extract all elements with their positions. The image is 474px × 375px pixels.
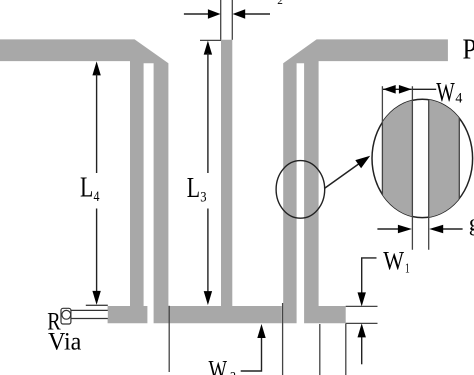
bottom extension line at left (W3 left boundary) [168,306,170,372]
top width dimension: right arrow [244,13,270,15]
svg-text:Via: Via [48,328,81,355]
W4 outward arrows [383,88,412,90]
bottom extension line at right pair right edge [319,324,321,375]
g right extension line (through circle) [428,100,430,250]
W1 leader and top arrow [362,258,377,293]
L4 arrow up [92,61,100,75]
W1 ticks [346,305,378,307]
svg-text:3: 3 [230,370,236,375]
W3 arrow up at bar bottom [257,324,265,338]
leader line from small ellipse to magnified circle [324,163,360,189]
svg-text:1: 1 [405,262,410,277]
magnified strips inside circle [382,99,459,218]
svg-text:3: 3 [200,190,206,206]
svg-text:L: L [80,173,93,204]
svg-text:P: P [463,33,474,65]
W3 leader line [241,337,262,371]
L4 dimension tick above via pad [86,304,108,306]
svg-text:L: L [187,173,200,204]
L3 arrow up [204,41,212,55]
W4 extension line left (through circle) [381,86,383,195]
svg-text:4: 4 [94,189,100,205]
left microstrip structure: top-left feed bar + folded coupled lines + main bottom bar + center strip [0,39,282,323]
W1 bottom arrow [361,337,363,364]
svg-text:W: W [209,356,228,375]
via pad rectangle outline [71,310,108,318]
top width dimension: left arrow [184,13,209,15]
svg-text:g: g [469,210,474,236]
L3 arrow down [207,209,209,293]
W4 leader [412,88,436,90]
W4 / g shared extension line (through circle) [411,86,413,250]
svg-text:W: W [436,77,455,107]
L3 dimension tick at strip top [200,39,221,41]
leader arrowhead [355,156,370,169]
via square with rounded corners [61,308,71,324]
small ellipse marking coupled-line zoom region [276,161,325,219]
right microstrip structure: top-right feed bar + folded coupled lines + bottom stub [283,39,448,323]
via hole circle [62,310,71,319]
bottom extension line at right pair left edge [282,303,284,375]
g dimension arrows [377,228,399,230]
svg-text:2: 2 [277,0,283,7]
top width dimension: extension lines [220,0,222,40]
svg-text:4: 4 [455,91,462,107]
svg-text:W: W [383,247,404,276]
magnified circle (white fill) [372,99,473,217]
L4 arrow down [96,209,98,292]
bottom extension line at stub right end [345,324,347,375]
